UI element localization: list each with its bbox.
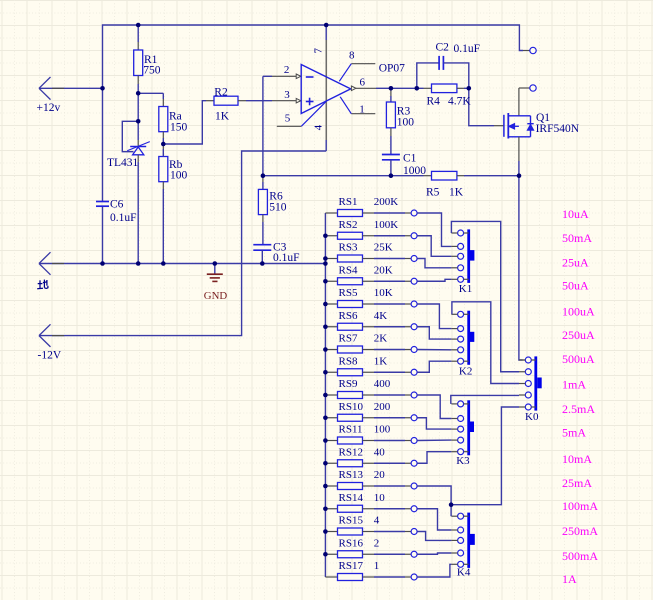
svg-text:TL431: TL431 (107, 157, 139, 169)
svg-text:0.1uF: 0.1uF (110, 212, 137, 224)
svg-text:RS9: RS9 (339, 378, 358, 390)
svg-text:750: 750 (143, 65, 161, 77)
svg-text:200K: 200K (374, 196, 399, 208)
svg-text:4.7K: 4.7K (448, 96, 471, 108)
svg-text:20: 20 (374, 469, 386, 481)
svg-text:K3: K3 (456, 455, 470, 467)
svg-text:4: 4 (312, 124, 324, 130)
svg-text:510: 510 (269, 202, 287, 214)
svg-text:150: 150 (170, 122, 188, 134)
svg-text:RS16: RS16 (339, 537, 364, 549)
svg-text:2.5mA: 2.5mA (562, 402, 595, 416)
svg-text:4K: 4K (374, 310, 388, 322)
svg-text:3: 3 (284, 89, 290, 101)
svg-text:RS10: RS10 (339, 401, 364, 413)
svg-text:10: 10 (374, 492, 386, 504)
svg-text:100mA: 100mA (562, 499, 598, 513)
svg-text:10mA: 10mA (562, 452, 592, 466)
svg-text:500uA: 500uA (562, 352, 595, 366)
svg-text:5mA: 5mA (562, 425, 586, 439)
svg-text:RS15: RS15 (339, 515, 364, 527)
svg-text:10uA: 10uA (562, 207, 589, 221)
svg-text:Ra: Ra (169, 111, 182, 123)
svg-text:-12V: -12V (38, 350, 62, 362)
svg-text:R4: R4 (427, 96, 441, 108)
svg-text:OP07: OP07 (379, 63, 405, 75)
svg-text:10K: 10K (374, 287, 393, 299)
svg-text:K2: K2 (459, 366, 472, 378)
svg-text:25uA: 25uA (562, 256, 589, 270)
svg-text:RS12: RS12 (339, 446, 363, 458)
svg-text:C2: C2 (436, 42, 450, 54)
svg-text:100K: 100K (374, 219, 399, 231)
svg-text:250uA: 250uA (562, 328, 595, 342)
svg-text:C1: C1 (403, 153, 417, 165)
svg-text:2: 2 (284, 64, 290, 76)
svg-text:R2: R2 (214, 86, 228, 98)
svg-text:RS8: RS8 (339, 355, 358, 367)
svg-text:1A: 1A (562, 572, 577, 586)
svg-text:C6: C6 (110, 199, 124, 211)
svg-text:RS13: RS13 (339, 469, 364, 481)
svg-text:25K: 25K (374, 242, 393, 254)
svg-text:1K: 1K (215, 111, 230, 123)
svg-text:100: 100 (397, 117, 415, 129)
svg-text:GND: GND (204, 290, 228, 302)
svg-text:RS17: RS17 (339, 560, 364, 572)
svg-text:RS7: RS7 (339, 333, 358, 345)
svg-text:+12v: +12v (37, 102, 61, 114)
svg-text:K4: K4 (457, 567, 471, 579)
svg-text:1K: 1K (374, 355, 388, 367)
svg-text:RS11: RS11 (339, 424, 363, 436)
svg-text:100: 100 (374, 424, 391, 436)
svg-text:RS4: RS4 (339, 264, 358, 276)
svg-text:400: 400 (374, 378, 391, 390)
svg-text:100uA: 100uA (562, 305, 595, 319)
svg-text:0.1uF: 0.1uF (273, 252, 300, 264)
svg-text:1: 1 (359, 103, 365, 115)
svg-text:20K: 20K (374, 264, 393, 276)
svg-text:8: 8 (349, 49, 355, 61)
svg-text:250mA: 250mA (562, 524, 598, 538)
svg-text:RS2: RS2 (339, 219, 358, 231)
svg-text:K1: K1 (459, 283, 472, 295)
svg-text:2K: 2K (374, 333, 388, 345)
svg-text:K0: K0 (525, 411, 539, 423)
svg-text:RS1: RS1 (339, 196, 358, 208)
svg-text:0.1uF: 0.1uF (454, 43, 481, 55)
svg-text:1K: 1K (449, 186, 464, 198)
svg-text:1mA: 1mA (562, 378, 586, 392)
svg-text:25mA: 25mA (562, 476, 592, 490)
svg-text:RS3: RS3 (339, 242, 358, 254)
svg-text:200: 200 (374, 401, 391, 413)
svg-text:1000: 1000 (403, 165, 426, 177)
svg-text:100: 100 (170, 170, 188, 182)
svg-text:RS14: RS14 (339, 492, 364, 504)
svg-text:6: 6 (360, 77, 366, 89)
svg-text:7: 7 (313, 48, 325, 54)
svg-text:1: 1 (374, 560, 380, 572)
svg-text:50mA: 50mA (562, 231, 592, 245)
svg-text:R5: R5 (426, 186, 440, 198)
svg-text:RS6: RS6 (339, 310, 358, 322)
svg-text:50uA: 50uA (562, 278, 589, 292)
svg-text:4: 4 (374, 515, 380, 527)
svg-text:IRF540N: IRF540N (536, 123, 580, 135)
svg-text:5: 5 (285, 112, 291, 124)
svg-text:2: 2 (374, 537, 380, 549)
svg-text:40: 40 (374, 446, 386, 458)
svg-text:500mA: 500mA (562, 549, 598, 563)
svg-text:RS5: RS5 (339, 287, 358, 299)
